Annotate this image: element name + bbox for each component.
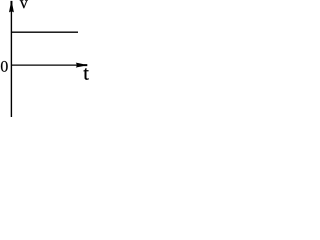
label v [20, 0, 28, 8]
t-axis (horizontal axis line) [11, 64, 80, 66]
label t [83, 68, 88, 79]
constant-velocity graph line [11, 31, 78, 33]
label 0 (origin) [1, 61, 8, 72]
t-axis arrowhead (right) [76, 63, 88, 68]
v-axis arrowhead (up) [9, 1, 14, 13]
v-axis (vertical axis line) [10, 4, 12, 117]
